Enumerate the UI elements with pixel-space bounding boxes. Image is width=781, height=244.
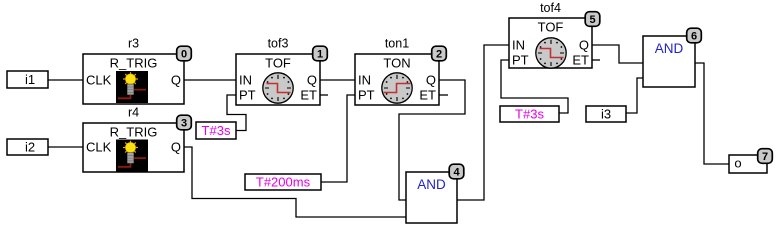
- r4 bulb icon: [116, 140, 148, 172]
- input box i2: [7, 139, 48, 155]
- svg-text:Q: Q: [426, 73, 436, 88]
- svg-text:3: 3: [181, 118, 187, 130]
- svg-text:R_TRIG: R_TRIG: [110, 125, 158, 140]
- marker 4 (AND1): [449, 164, 464, 179]
- function block r4 R_TRIG: [83, 106, 184, 173]
- wire i3 to AND2.in2: [626, 78, 643, 113]
- svg-text:CLK: CLK: [86, 140, 112, 155]
- wire tof3.ET stub: [320, 94, 328, 96]
- svg-text:i3: i3: [601, 107, 611, 122]
- wire AND1.out to tof4.IN: [457, 45, 509, 200]
- svg-text:Q: Q: [307, 73, 317, 88]
- svg-text:IN: IN: [239, 73, 252, 88]
- wire T#200ms to ton1.PT: [321, 95, 355, 182]
- function block r3 R_TRIG: [83, 37, 184, 105]
- tof4 clock icon: [536, 38, 566, 68]
- svg-text:0: 0: [181, 49, 187, 61]
- wire i1 to r3.CLK: [48, 79, 83, 81]
- wire T#3s to tof4.PT: [501, 60, 568, 113]
- tof3 clock icon: [263, 73, 293, 103]
- value box T#3s (tof3.PT): [196, 122, 236, 139]
- svg-text:AND: AND: [417, 177, 446, 192]
- svg-text:6: 6: [691, 31, 697, 43]
- wire AND2.out to output o: [695, 63, 729, 164]
- wire ton1.Q to AND1.in1: [399, 80, 465, 200]
- svg-text:PT: PT: [358, 88, 375, 103]
- value box T#200ms (ton1.PT): [245, 174, 321, 190]
- svg-text:T#3s: T#3s: [202, 123, 231, 138]
- tof3 falling-step symbol: [267, 84, 291, 93]
- svg-text:TON: TON: [383, 56, 410, 71]
- operator block AND1: [406, 172, 457, 223]
- svg-text:R_TRIG: R_TRIG: [110, 56, 158, 71]
- wire T#3s to tof3.PT: [227, 95, 246, 131]
- svg-text:T#200ms: T#200ms: [256, 175, 311, 190]
- svg-text:AND: AND: [655, 41, 684, 56]
- svg-text:T#3s: T#3s: [515, 107, 544, 122]
- svg-text:5: 5: [589, 14, 595, 26]
- svg-text:CLK: CLK: [86, 73, 112, 88]
- svg-text:2: 2: [436, 49, 442, 61]
- svg-text:Q: Q: [171, 73, 181, 88]
- wire r4.Q to AND1.in2: [184, 147, 406, 217]
- value box T#3s (tof4.PT): [500, 106, 559, 122]
- svg-text:tof4: tof4: [540, 1, 561, 15]
- input box i1: [7, 71, 48, 88]
- svg-text:o: o: [734, 156, 741, 171]
- marker 1 (tof3): [313, 46, 328, 61]
- svg-text:ton1: ton1: [385, 37, 409, 51]
- svg-text:r3: r3: [128, 37, 139, 51]
- svg-text:Q: Q: [171, 140, 181, 155]
- svg-text:Q: Q: [579, 38, 589, 53]
- svg-text:PT: PT: [239, 88, 256, 103]
- function block tof4 TOF: [509, 1, 592, 68]
- marker 0 (r3): [177, 46, 192, 61]
- wire r3.Q to tof3.IN: [184, 79, 236, 81]
- ton1 clock icon: [382, 73, 412, 103]
- svg-text:ET: ET: [572, 53, 589, 68]
- marker 7 (output o): [758, 149, 773, 164]
- marker 6 (AND2): [687, 28, 702, 43]
- svg-text:PT: PT: [512, 53, 529, 68]
- r3 bulb icon: [116, 71, 148, 103]
- wire tof4.ET stub: [592, 59, 600, 61]
- tof4 falling-step symbol: [540, 49, 564, 58]
- marker 3 (r4): [177, 115, 192, 130]
- input box i3: [586, 106, 626, 122]
- svg-text:ET: ET: [419, 88, 436, 103]
- svg-text:IN: IN: [512, 38, 525, 53]
- svg-text:i1: i1: [25, 72, 35, 87]
- ton1 rising-step symbol: [384, 84, 411, 93]
- svg-text:TOF: TOF: [265, 56, 291, 71]
- wire i2 to r4.CLK: [48, 146, 83, 148]
- svg-text:i2: i2: [25, 140, 35, 155]
- svg-text:ET: ET: [300, 88, 317, 103]
- svg-text:7: 7: [762, 151, 768, 163]
- function block tof3 TOF: [236, 37, 320, 106]
- svg-text:r4: r4: [128, 106, 139, 120]
- svg-text:tof3: tof3: [268, 37, 289, 51]
- wire tof4.Q to AND2.in1: [592, 45, 643, 63]
- marker 2 (ton1): [432, 46, 447, 61]
- output box o: [729, 155, 767, 173]
- marker 5 (tof4): [585, 12, 600, 27]
- wire ton1.ET stub: [439, 94, 448, 96]
- svg-text:IN: IN: [358, 73, 371, 88]
- svg-text:4: 4: [453, 167, 460, 179]
- wire tof3.Q to ton1.IN: [320, 79, 355, 81]
- svg-text:1: 1: [317, 49, 323, 61]
- operator block AND2: [643, 36, 695, 87]
- svg-text:TOF: TOF: [538, 20, 564, 35]
- function block ton1 TON: [355, 37, 439, 106]
